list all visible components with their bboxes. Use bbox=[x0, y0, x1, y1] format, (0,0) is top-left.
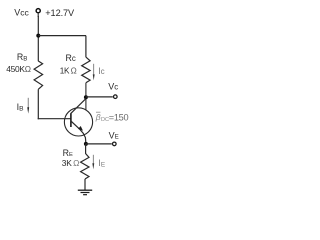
transistor Q1 body circle bbox=[64, 108, 92, 136]
svg-text:Vc: Vc bbox=[108, 82, 118, 92]
wire emitter node to VE terminal bbox=[86, 143, 112, 145]
wire right vertical down to Rc bbox=[85, 36, 87, 58]
resistor RB (450K) zigzag bbox=[34, 61, 43, 89]
terminal Vc bbox=[114, 95, 118, 99]
wire emitter junction down to RE bbox=[85, 144, 87, 154]
label beta_DC = 150 bbox=[95, 112, 129, 123]
transistor Q1 emitter lead bbox=[71, 121, 86, 145]
svg-text:+12.7V: +12.7V bbox=[45, 8, 75, 18]
wire collector node to Vc terminal bbox=[86, 96, 113, 98]
current arrow IB bbox=[27, 98, 29, 114]
svg-text:Ic: Ic bbox=[98, 66, 104, 76]
svg-text:Rc: Rc bbox=[66, 53, 76, 63]
transistor Q1 base bar bbox=[70, 113, 72, 127]
junction node emitter bbox=[84, 142, 88, 146]
transistor Q1 emitter arrowhead bbox=[78, 126, 83, 131]
resistor RE (3K) zigzag bbox=[81, 153, 89, 179]
junction node top (base branch / collector branch split) bbox=[36, 34, 40, 38]
wire Vcc down to top junction bbox=[37, 16, 39, 61]
ground symbol bbox=[78, 190, 92, 195]
wire Rc bottom to collector junction bbox=[85, 83, 87, 111]
svg-text:450KΩ: 450KΩ bbox=[6, 64, 31, 74]
current arrow IE bbox=[92, 155, 94, 170]
resistor Rc (1K) zigzag bbox=[82, 57, 90, 83]
wire RB bottom vertical bbox=[37, 89, 39, 119]
wire top horizontal to right branch bbox=[38, 35, 86, 37]
svg-text:Vcc: Vcc bbox=[14, 7, 29, 17]
svg-text:β: β bbox=[95, 112, 101, 122]
transistor Q1 collector lead bbox=[71, 99, 86, 114]
junction node collector bbox=[84, 95, 88, 99]
svg-text:3K Ω: 3K Ω bbox=[62, 158, 79, 168]
svg-text:=150: =150 bbox=[109, 112, 129, 122]
wire base horizontal into transistor bbox=[38, 118, 71, 120]
terminal VE bbox=[113, 142, 117, 146]
svg-text:1K Ω: 1K Ω bbox=[60, 67, 77, 76]
wire RE bottom to ground bbox=[84, 179, 86, 190]
power terminal Vcc bbox=[36, 9, 40, 17]
current arrow Ic bbox=[93, 64, 95, 81]
